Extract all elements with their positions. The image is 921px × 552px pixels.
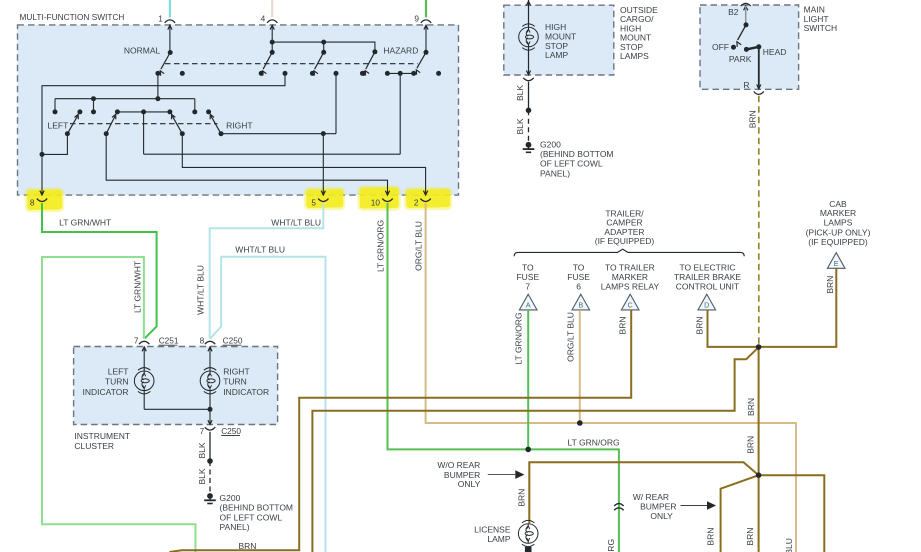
off-page connector C xyxy=(621,294,639,310)
upper contact dots LEFT/RIGHT row xyxy=(77,109,211,114)
highlight marker over pin 2 xyxy=(404,187,452,210)
label TO TRAILER MARKER LAMPS RELAY xyxy=(601,263,660,292)
label BLK high mount 2 xyxy=(515,118,525,134)
connector pin 9 of multi-function switch xyxy=(414,14,431,30)
license lamp xyxy=(518,520,538,546)
connector 8 C250 xyxy=(200,336,243,346)
svg-text:PARK: PARK xyxy=(729,54,752,64)
label LICENSE LAMP xyxy=(474,525,511,544)
wire contact 400 drop xyxy=(399,73,401,154)
high mount stop lamp box xyxy=(504,5,614,75)
label R xyxy=(743,80,749,90)
wire into high mount lamp top xyxy=(526,0,530,27)
svg-text:LAMPS: LAMPS xyxy=(620,51,649,61)
highlight marker over pin 10 xyxy=(357,186,400,211)
label ORG/LT BLU vertical B xyxy=(566,312,576,362)
high mount exit connector xyxy=(523,78,533,81)
switch arm 2 xyxy=(259,52,273,76)
wire pin 1 to NORMAL pivot xyxy=(168,25,173,55)
label BRN license xyxy=(516,489,526,507)
wire into pin 4 xyxy=(271,0,273,17)
wire pin 9 to HAZARD pivot xyxy=(424,25,429,55)
label CAB MARKER LAMPS xyxy=(806,199,871,247)
svg-text:BRN: BRN xyxy=(748,110,758,128)
svg-text:LAMPS RELAY: LAMPS RELAY xyxy=(601,281,660,291)
wire contact to rail C xyxy=(155,73,160,101)
svg-text:RIGHT: RIGHT xyxy=(223,367,249,377)
svg-text:4: 4 xyxy=(261,14,266,24)
svg-text:BRN: BRN xyxy=(745,528,755,546)
svg-text:C251: C251 xyxy=(159,336,179,346)
svg-text:R: R xyxy=(743,80,749,90)
wire BRN jog to rear xyxy=(312,347,758,552)
wire rail drop xyxy=(321,42,326,55)
svg-text:CONTROL UNIT: CONTROL UNIT xyxy=(676,281,739,291)
wire BRN from C xyxy=(170,310,632,552)
wire left1 to pin8 rail xyxy=(42,134,67,155)
svg-text:B: B xyxy=(578,301,583,310)
hazard feed rail xyxy=(272,40,377,55)
svg-text:WHT/LT BLU: WHT/LT BLU xyxy=(196,265,206,315)
wire BRN from D xyxy=(708,310,759,347)
svg-text:LAMP: LAMP xyxy=(487,534,510,544)
label NORMAL xyxy=(124,45,161,55)
off-page connector E xyxy=(827,253,845,269)
label G200 cluster xyxy=(220,493,294,532)
svg-text:BRN: BRN xyxy=(239,541,257,551)
junction dot brn upper xyxy=(756,344,762,350)
wire BRN license feed xyxy=(529,462,758,523)
svg-text:(PICK-UP ONLY): (PICK-UP ONLY) xyxy=(806,227,871,237)
label BLK high mount xyxy=(515,85,525,101)
label LEFT TURN INDICATOR xyxy=(83,367,129,397)
label BRN trunk upper xyxy=(746,398,756,416)
rotor bar PARK-HEAD xyxy=(746,47,758,50)
connector pin 1 of multi-function switch xyxy=(158,14,175,30)
wire 143 drop xyxy=(143,112,145,154)
contact dots row xyxy=(180,71,441,76)
wire contact 285 to pin 8 xyxy=(40,73,286,195)
svg-text:6: 6 xyxy=(576,281,581,291)
connector pin 2 bottom of multi-function switch xyxy=(414,191,431,208)
wire pin 5 drop xyxy=(322,134,324,195)
svg-text:BLK: BLK xyxy=(197,442,207,458)
label BRN vertical E xyxy=(825,276,835,294)
label TO FUSE 7 xyxy=(516,263,539,292)
svg-text:LEFT: LEFT xyxy=(108,367,129,377)
label WHT/LT BLU horizontal 2 xyxy=(235,244,285,254)
connector B2 xyxy=(728,3,751,16)
svg-text:BLK: BLK xyxy=(197,468,207,484)
switch arm RIGHT 1 xyxy=(172,114,185,136)
svg-text:HAZARD: HAZARD xyxy=(383,45,418,55)
svg-text:INDICATOR: INDICATOR xyxy=(223,387,269,397)
label G200 high mount xyxy=(540,139,614,178)
off-page connector B xyxy=(572,294,590,310)
svg-text:C250: C250 xyxy=(221,426,241,436)
wire ORG/LT BLU from B xyxy=(579,310,581,423)
svg-text:BLK: BLK xyxy=(515,85,525,101)
wire LT BLU into pin 1 xyxy=(169,0,171,17)
label MAIN LIGHT SWITCH xyxy=(804,5,838,34)
dashed linkage lower xyxy=(70,123,218,125)
connector pin 5 bottom of multi-function switch xyxy=(311,191,328,208)
svg-text:(IF EQUIPPED): (IF EQUIPPED) xyxy=(595,236,655,246)
wire ORG/LT BLU pin2 xyxy=(426,203,796,552)
svg-text:W/O REAR: W/O REAR xyxy=(437,460,480,470)
svg-text:C250: C250 xyxy=(223,336,243,346)
label LT GRN/ORG vertical A xyxy=(513,312,523,364)
svg-text:LT GRN/WHT: LT GRN/WHT xyxy=(132,261,142,313)
label TO ELECTRIC TRAILER BRAKE CONTROL UNIT xyxy=(674,263,741,292)
wire BLK high mount solid xyxy=(526,82,532,113)
cluster exit wire xyxy=(208,409,212,424)
svg-text:ONLY: ONLY xyxy=(458,479,481,489)
label RIGHT TURN INDICATOR xyxy=(223,367,269,397)
svg-text:WHT/LT BLU: WHT/LT BLU xyxy=(235,244,285,254)
label OUTSIDE CARGO xyxy=(620,5,658,61)
connector pin 10 bottom of multi-function switch xyxy=(371,191,393,208)
svg-text:7: 7 xyxy=(525,281,530,291)
svg-text:BRN: BRN xyxy=(746,398,756,416)
wire HEAD to R xyxy=(757,47,761,89)
wire LT GRN/WHT branch to bottom xyxy=(42,257,196,552)
switch arm 4 xyxy=(361,52,375,76)
dashed linkage upper xyxy=(165,63,418,65)
wire LT GRN into pin 9 xyxy=(425,0,427,17)
switch arm NORMAL (pin1) xyxy=(155,53,170,76)
svg-text:D: D xyxy=(704,301,709,310)
label INSTRUMENT CLUSTER xyxy=(74,431,130,451)
svg-text:BRN: BRN xyxy=(618,317,628,335)
svg-text:A: A xyxy=(526,301,531,310)
svg-text:(BEHIND BOTTOM: (BEHIND BOTTOM xyxy=(220,503,294,513)
svg-text:WHT/LT BLU: WHT/LT BLU xyxy=(271,217,321,227)
label LT GRN/ORG clipped xyxy=(606,539,616,552)
switch arm 3 xyxy=(310,52,324,76)
contact PARK xyxy=(729,47,752,64)
svg-text:ORG/LT BLU: ORG/LT BLU xyxy=(566,312,576,362)
wire BRN dashed from R xyxy=(758,96,760,347)
label LEFT xyxy=(48,120,69,130)
label BLK 2 xyxy=(197,468,207,484)
off-page connector D xyxy=(698,294,716,310)
rail C xyxy=(55,96,195,101)
wire BLK high mount dashed xyxy=(528,110,530,141)
connector 7 C251 xyxy=(134,336,179,346)
svg-text:2: 2 xyxy=(414,198,419,208)
right turn indicator lamp xyxy=(200,368,220,394)
connector pin 4 of multi-function switch xyxy=(261,14,278,30)
label BRN vertical D xyxy=(695,317,705,335)
wire contact 336 drop xyxy=(335,73,337,133)
wire BRN trunk xyxy=(758,347,760,475)
wire BRN trunk bottom xyxy=(758,475,760,552)
svg-text:BRN: BRN xyxy=(516,489,526,507)
svg-text:CLUSTER: CLUSTER xyxy=(74,441,114,451)
wire LT GRN/WHT pin8 to C251 xyxy=(42,203,157,338)
svg-text:(BEHIND BOTTOM: (BEHIND BOTTOM xyxy=(540,149,614,159)
label BRN bottom 1 xyxy=(706,528,716,546)
svg-text:ONLY: ONLY xyxy=(650,511,673,521)
svg-text:LT GRN/ORG: LT GRN/ORG xyxy=(568,437,620,447)
wire left2 to pin 10 xyxy=(106,134,387,195)
entry arrow left lamp xyxy=(142,347,146,371)
note W/O REAR BUMPER ONLY xyxy=(437,460,524,489)
svg-text:1: 1 xyxy=(158,14,163,24)
svg-text:PANEL): PANEL) xyxy=(540,168,570,178)
connector pin 8 bottom of multi-function switch xyxy=(30,191,47,208)
svg-text:BRN: BRN xyxy=(695,317,705,335)
svg-text:ORG/LT BLU: ORG/LT BLU xyxy=(784,538,794,552)
svg-text:NORMAL: NORMAL xyxy=(124,45,161,55)
svg-text:7: 7 xyxy=(200,426,205,436)
connector R xyxy=(754,92,764,95)
wire B2 to pivot xyxy=(744,6,749,27)
svg-text:G200: G200 xyxy=(220,493,241,503)
junction dot tan xyxy=(577,420,583,426)
svg-text:8: 8 xyxy=(30,198,35,208)
cluster ground bus xyxy=(144,391,212,412)
svg-text:LAMPS: LAMPS xyxy=(824,217,853,227)
svg-text:OF LEFT COWL: OF LEFT COWL xyxy=(540,159,603,169)
wire BLK cluster dashed xyxy=(209,461,211,493)
svg-text:OFF: OFF xyxy=(712,42,729,52)
svg-text:5: 5 xyxy=(311,198,316,208)
left turn indicator lamp xyxy=(134,368,154,394)
instrument cluster box xyxy=(74,347,278,425)
svg-text:OF LEFT COWL: OF LEFT COWL xyxy=(220,512,283,522)
svg-text:E: E xyxy=(834,259,839,268)
svg-text:BRN: BRN xyxy=(825,276,835,294)
main light switch box xyxy=(700,5,799,89)
label ORG/LT BLU clipped xyxy=(784,538,794,552)
svg-text:INSTRUMENT: INSTRUMENT xyxy=(74,431,130,441)
svg-text:G200: G200 xyxy=(540,139,561,149)
svg-text:PANEL): PANEL) xyxy=(220,522,250,532)
wire right2 to pin 5 xyxy=(221,131,336,136)
switch arm HAZARD (pin9) xyxy=(411,52,426,76)
label WHT/LT BLU vertical xyxy=(196,265,206,315)
contact jumper xyxy=(387,72,413,74)
ground G200 (cluster) xyxy=(204,493,216,503)
svg-text:LEFT: LEFT xyxy=(48,120,69,130)
switch arm LEFT 2 xyxy=(104,114,116,136)
svg-text:(IF EQUIPPED): (IF EQUIPPED) xyxy=(808,237,868,247)
svg-text:BLK: BLK xyxy=(515,118,525,134)
label BLK xyxy=(197,442,207,458)
title MULTI-FUNCTION SWITCH xyxy=(20,12,125,22)
multi-function switch box xyxy=(18,25,459,195)
break symbol on green wire xyxy=(614,504,623,511)
svg-text:8: 8 xyxy=(200,336,205,346)
entry arrow right lamp xyxy=(208,347,212,371)
main switch arm xyxy=(731,25,746,50)
label LT GRN/WHT horizontal xyxy=(59,217,111,227)
wire BRN from E xyxy=(759,268,837,347)
wire LT GRN/ORG from A xyxy=(527,310,529,449)
svg-text:LT GRN/WHT: LT GRN/WHT xyxy=(59,217,111,227)
label LT GRN/ORG vertical pin10 xyxy=(375,220,385,272)
svg-text:BRN: BRN xyxy=(746,436,756,454)
switch arm RIGHT 2 xyxy=(210,114,223,136)
label OFF xyxy=(712,42,729,52)
contact jumper 117-170 xyxy=(117,111,169,113)
wire LT GRN/ORG pin10 to junction xyxy=(388,203,619,552)
ground G200 (high mount) xyxy=(523,142,535,152)
rail C stub mid xyxy=(91,99,96,115)
label LT GRN/ORG horizontal xyxy=(568,437,620,447)
contact HEAD xyxy=(756,44,786,57)
svg-text:LT GRN/ORG: LT GRN/ORG xyxy=(375,220,385,272)
label WHT/LT BLU horizontal xyxy=(271,217,321,227)
svg-text:LT GRN/ORG: LT GRN/ORG xyxy=(513,312,523,364)
wire right1 to pin 2 xyxy=(182,134,425,195)
svg-text:9: 9 xyxy=(414,14,419,24)
highlight marker over pin 5 xyxy=(304,187,345,210)
wire WHT/LT BLU branch to bottom xyxy=(210,257,325,552)
svg-text:TURN: TURN xyxy=(105,377,129,387)
label BRN bottom 2 xyxy=(745,528,755,546)
wire WHT/LT BLU pin5 to C250 xyxy=(210,203,324,339)
label LT GRN/WHT vertical xyxy=(132,261,142,313)
rail C stub left xyxy=(53,99,58,115)
label HIGH MOUNT STOP LAMP xyxy=(545,22,576,60)
svg-text:BRN: BRN xyxy=(706,528,716,546)
license lamp bottom node xyxy=(525,547,532,552)
label BRN vertical C xyxy=(618,317,628,335)
svg-text:INDICATOR: INDICATOR xyxy=(83,387,129,397)
highlight marker over pin 8 xyxy=(25,188,64,212)
switch arm LEFT 1 xyxy=(65,114,78,136)
junction dot green xyxy=(525,447,531,453)
svg-text:7: 7 xyxy=(134,336,139,346)
crossbar 154 xyxy=(144,153,401,155)
wire BLK cluster solid xyxy=(207,432,213,464)
junction dot brn lower xyxy=(756,472,762,478)
svg-text:MULTI-FUNCTION SWITCH: MULTI-FUNCTION SWITCH xyxy=(20,12,125,22)
svg-text:TURN: TURN xyxy=(223,377,247,387)
svg-text:RIGHT: RIGHT xyxy=(226,120,252,130)
off-page connector A xyxy=(519,294,537,310)
svg-text:ORG/LT BLU: ORG/LT BLU xyxy=(413,221,423,271)
svg-text:HEAD: HEAD xyxy=(763,47,787,57)
label RIGHT xyxy=(226,120,252,130)
label BRN trunk lower xyxy=(746,436,756,454)
connector 7 C250 bottom xyxy=(200,426,242,436)
label TO FUSE 6 xyxy=(567,263,590,292)
label BRN bottom left horizontal xyxy=(239,541,257,551)
svg-text:B2: B2 xyxy=(728,7,739,17)
svg-text:10: 10 xyxy=(371,198,381,208)
svg-text:C: C xyxy=(628,301,633,310)
label HAZARD xyxy=(383,45,418,55)
svg-text:SWITCH: SWITCH xyxy=(804,23,838,33)
svg-text:LAMP: LAMP xyxy=(545,50,568,60)
high mount lamp exit xyxy=(526,47,530,75)
wire BRN w-rear branch xyxy=(721,475,759,552)
wire pin 4 feed xyxy=(270,25,275,55)
label TRAILER CAMPER ADAPTER xyxy=(595,208,655,246)
svg-text:LT GRN/ORG: LT GRN/ORG xyxy=(606,539,616,552)
rail C stub right xyxy=(192,99,197,115)
label ORG/LT BLU vertical pin2 xyxy=(413,221,423,271)
brace xyxy=(514,249,744,256)
high mount stop lamp xyxy=(519,24,539,50)
wire BRN right lower xyxy=(759,475,825,552)
label BRN (R wire) xyxy=(748,110,758,128)
note W/ REAR BUMPER ONLY xyxy=(633,492,716,521)
